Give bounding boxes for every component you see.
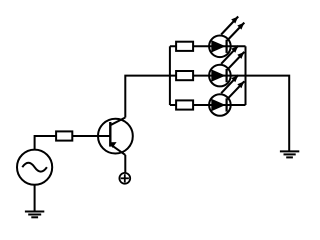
LED D1 light arrows (221, 17, 244, 41)
LED D1 (top) (209, 36, 231, 58)
wire: collector up to LED bank feed (125, 76, 170, 118)
wire: LED bank to right ground (246, 76, 290, 152)
positive supply terminal (circled plus) (119, 173, 130, 184)
resistor (bottom branch) (176, 100, 193, 109)
wire: emitter down to positive supply terminal (124, 155, 126, 173)
ground (right) (280, 151, 299, 157)
wire: top branch (170, 45, 246, 47)
AC voltage source (17, 150, 52, 185)
wire: AC source top to base resistor (35, 136, 57, 150)
wire: AC source bottom to ground (34, 185, 36, 212)
LED D2 light arrows (221, 46, 244, 70)
LED D3 light arrows (221, 75, 244, 99)
resistor (top branch) (176, 42, 193, 51)
resistor (middle branch) (176, 71, 193, 80)
ground (left, below AC source) (25, 212, 44, 218)
LED D2 (middle) (209, 65, 231, 87)
wire: bottom branch (170, 104, 246, 106)
resistor (base resistor) (56, 131, 72, 140)
right bus wire of LED bank (245, 46, 247, 105)
wire: base resistor to transistor base (72, 135, 110, 137)
left bus wire of LED bank (169, 46, 171, 105)
LED D3 (bottom) (209, 94, 231, 116)
wire: middle branch (170, 75, 246, 77)
transistor Q1 (PNP) (98, 118, 133, 155)
